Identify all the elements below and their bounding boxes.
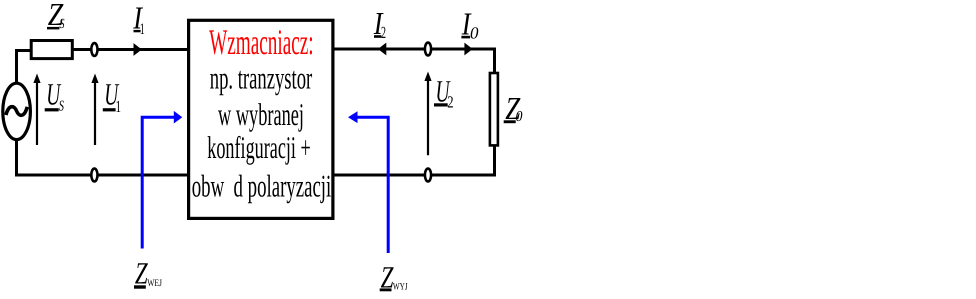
amplifier block xyxy=(189,20,333,218)
label Z_WYJ xyxy=(380,259,408,294)
arrowhead I2 pointing left xyxy=(378,43,386,56)
svg-text:konfiguracji +: konfiguracji + xyxy=(207,130,311,165)
node terminal top-right xyxy=(425,43,431,56)
wire left vertical lower xyxy=(15,140,18,177)
svg-text:2: 2 xyxy=(447,92,453,111)
node terminal top-left xyxy=(91,43,97,56)
wire top-right box to corner xyxy=(334,48,496,51)
wire bottom node to box xyxy=(99,174,189,177)
arrowhead I0 pointing right xyxy=(464,43,472,56)
node terminal bottom-right xyxy=(425,169,431,182)
svg-text:0: 0 xyxy=(516,109,523,125)
svg-text:w wybranej: w wybranej xyxy=(218,97,304,132)
arrow U_2 xyxy=(424,72,431,156)
svg-text:1: 1 xyxy=(140,21,145,38)
label I_2 xyxy=(373,5,386,42)
wire right vertical lower xyxy=(493,145,496,177)
resistor Z0 xyxy=(490,73,498,145)
svg-text:Wzmacniacz:: Wzmacniacz: xyxy=(209,22,314,62)
svg-text:obw d polaryzacji: obw d polaryzacji xyxy=(192,168,332,203)
wire bottom-right xyxy=(334,174,496,177)
arrow U_S xyxy=(33,74,40,146)
svg-text:S: S xyxy=(59,99,65,115)
wire right vertical upper xyxy=(493,48,496,74)
svg-text:np. tranzystor: np. tranzystor xyxy=(210,61,313,96)
label Z_S xyxy=(47,0,65,32)
svg-text:0: 0 xyxy=(470,23,479,42)
label I_1 xyxy=(132,0,144,38)
node terminal bottom-left xyxy=(91,169,97,182)
wire left vertical upper xyxy=(15,49,18,83)
label Z_0 xyxy=(504,90,523,126)
label U_1 xyxy=(103,77,121,116)
resistor ZS xyxy=(31,41,72,59)
wire input node to amplifier box xyxy=(99,48,189,51)
wire bottom-left xyxy=(15,174,91,177)
svg-text:S: S xyxy=(60,17,65,32)
blue arrow Z_WYJ pointing into box output xyxy=(348,111,388,253)
svg-text:WYJ: WYJ xyxy=(393,282,408,293)
AC source xyxy=(3,83,31,139)
svg-text:WEJ: WEJ xyxy=(147,278,162,289)
arrow U_1 xyxy=(91,74,98,146)
wire top-left from source corner to resistor xyxy=(15,49,31,52)
arrowhead I1 xyxy=(134,43,142,56)
label Z_WEJ xyxy=(134,256,162,291)
svg-text:2: 2 xyxy=(381,23,386,42)
label I_0 xyxy=(461,5,479,42)
label U_S xyxy=(45,77,65,115)
svg-text:1: 1 xyxy=(116,97,122,116)
blue arrow Z_WEJ pointing into box input xyxy=(142,111,182,249)
wire resistor to input node xyxy=(73,48,91,51)
label U_2 xyxy=(434,73,454,111)
amplifier text xyxy=(192,22,332,203)
